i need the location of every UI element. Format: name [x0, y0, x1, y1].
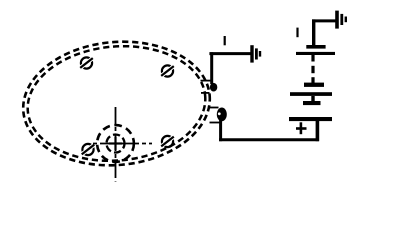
shaft centerline vertical	[115, 107, 117, 182]
battery B1 plate P4 (long)	[290, 92, 332, 96]
terminal T1 solder blob	[210, 83, 217, 92]
battery B1 plate P2 (long)	[296, 52, 335, 55]
terminal T2 solder blob	[217, 108, 227, 122]
tick mark near W2	[224, 36, 226, 45]
screw S4 (bottom-left)	[82, 144, 95, 155]
screw S1 (top-left)	[80, 57, 93, 68]
wire W5: up into battery positive plate	[316, 120, 320, 141]
terminal T1 (top) tab outline	[201, 81, 212, 93]
wire W1: T1 up to elbow	[210, 52, 213, 84]
motor M1 case outline (double dashed oval), rotated	[18, 34, 215, 173]
screw S3 (mid-right)	[161, 136, 174, 147]
battery B1 plate P3 (short)	[304, 83, 324, 87]
terminal T2 (bottom) tab outline	[210, 108, 220, 123]
battery B1 plate P1 (top, negative, short)	[306, 45, 325, 49]
shaft centerline horizontal	[93, 143, 152, 145]
ground G1 (three decreasing bars)	[252, 45, 260, 62]
shaft (inner dashed circle)	[107, 135, 125, 153]
wire W4: bottom run to battery	[219, 138, 319, 141]
battery B1 inter-cell stub	[311, 96, 314, 102]
battery B1 plate P6 (bottom, positive, long)	[289, 117, 332, 121]
screw S2 (top-right)	[161, 65, 174, 76]
battery B1 plate P5 (short)	[303, 101, 321, 105]
battery B1 dashed omitted-cells connector	[311, 55, 314, 84]
tick mark near battery top	[296, 28, 298, 38]
shaft boss (outer dashed circle)	[97, 125, 134, 162]
shaft center cross	[109, 137, 122, 150]
wire W3: T2 down	[219, 120, 222, 141]
wire W7: elbow right to ground G2	[312, 19, 336, 22]
wire W2: elbow right to ground G1	[209, 52, 250, 55]
battery plus label	[296, 122, 307, 134]
ground G2 (three decreasing bars)	[337, 11, 346, 29]
wire W6: battery top up	[312, 19, 315, 46]
